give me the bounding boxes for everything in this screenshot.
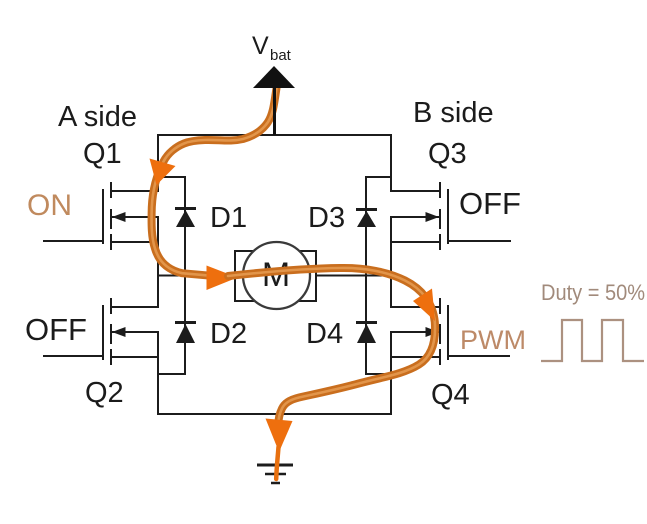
current flow arrowhead into motor	[207, 266, 238, 291]
svg-text:D2: D2	[210, 318, 247, 350]
svg-text:B side: B side	[413, 97, 494, 129]
wire left rail middle segment (Q1 source / node A / Q2 drain)	[157, 217, 159, 307]
current flow arrowhead into ground	[266, 419, 293, 453]
svg-text:D3: D3	[308, 202, 345, 234]
svg-text:ON: ON	[27, 189, 72, 222]
svg-text:V: V	[252, 32, 269, 60]
wire left rail lower segment (Q2 source to bottom rail)	[157, 333, 159, 414]
svg-text:A side: A side	[58, 101, 137, 133]
wire D1 top jog	[158, 176, 185, 178]
svg-text:Q2: Q2	[85, 377, 124, 409]
transistor Q1 (high-side A, ON)	[44, 183, 158, 249]
current flow arrowhead at Q1	[150, 159, 176, 186]
wire right diode branch vertical (D3/D4)	[365, 177, 367, 374]
wire D4 bottom jog	[366, 373, 391, 375]
svg-text:Q3: Q3	[428, 138, 467, 170]
svg-text:bat: bat	[270, 47, 292, 64]
wire motor tap right (motor to node B)	[316, 275, 391, 277]
motor M	[235, 242, 316, 309]
wire D2 bottom jog	[158, 373, 185, 375]
current flow stroke Vbat through Q1 to motor	[152, 88, 277, 276]
wire right rail middle segment (Q3 source / node B / Q4 drain)	[390, 217, 392, 307]
svg-text:OFF: OFF	[459, 186, 521, 221]
power Vbat symbol	[253, 66, 295, 135]
svg-text:D1: D1	[210, 202, 247, 234]
wire right rail lower segment (Q4 source to bottom rail)	[390, 333, 392, 414]
transistor Q2 (low-side A, OFF)	[44, 299, 158, 364]
label Vbat	[252, 32, 292, 64]
diode D3	[356, 210, 377, 228]
PWM waveform Duty = 50%	[541, 320, 644, 361]
wire D3 top jog	[366, 176, 391, 178]
svg-text:D4: D4	[306, 318, 343, 350]
wire left diode branch vertical (D1/D2)	[184, 177, 186, 374]
diode D4	[356, 323, 377, 344]
svg-text:Q4: Q4	[431, 379, 470, 411]
current flow arrowhead at Q4	[413, 289, 435, 322]
wire left rail upper segment (Q1 drain to top rail)	[157, 135, 159, 191]
transistor Q3 (high-side B, OFF)	[391, 183, 510, 249]
wire bottom rail (ground rail)	[158, 413, 391, 415]
svg-text:Q1: Q1	[83, 138, 122, 170]
svg-text:OFF: OFF	[25, 312, 87, 347]
current flow tail at ground	[276, 447, 278, 479]
svg-text:PWM: PWM	[460, 325, 526, 355]
diode D2	[175, 323, 196, 344]
diode D1	[175, 209, 196, 228]
transistor Q4 (low-side B, PWM)	[391, 299, 509, 364]
current flow stroke motor through Q4 toward ground	[228, 268, 435, 425]
ground	[257, 465, 293, 483]
wire right rail upper segment (Q3 drain to top rail)	[390, 135, 392, 191]
wire motor tap left (node A to motor)	[158, 275, 235, 277]
svg-text:Duty = 50%: Duty = 50%	[541, 280, 645, 305]
wire top rail (Vbat rail)	[158, 134, 391, 136]
